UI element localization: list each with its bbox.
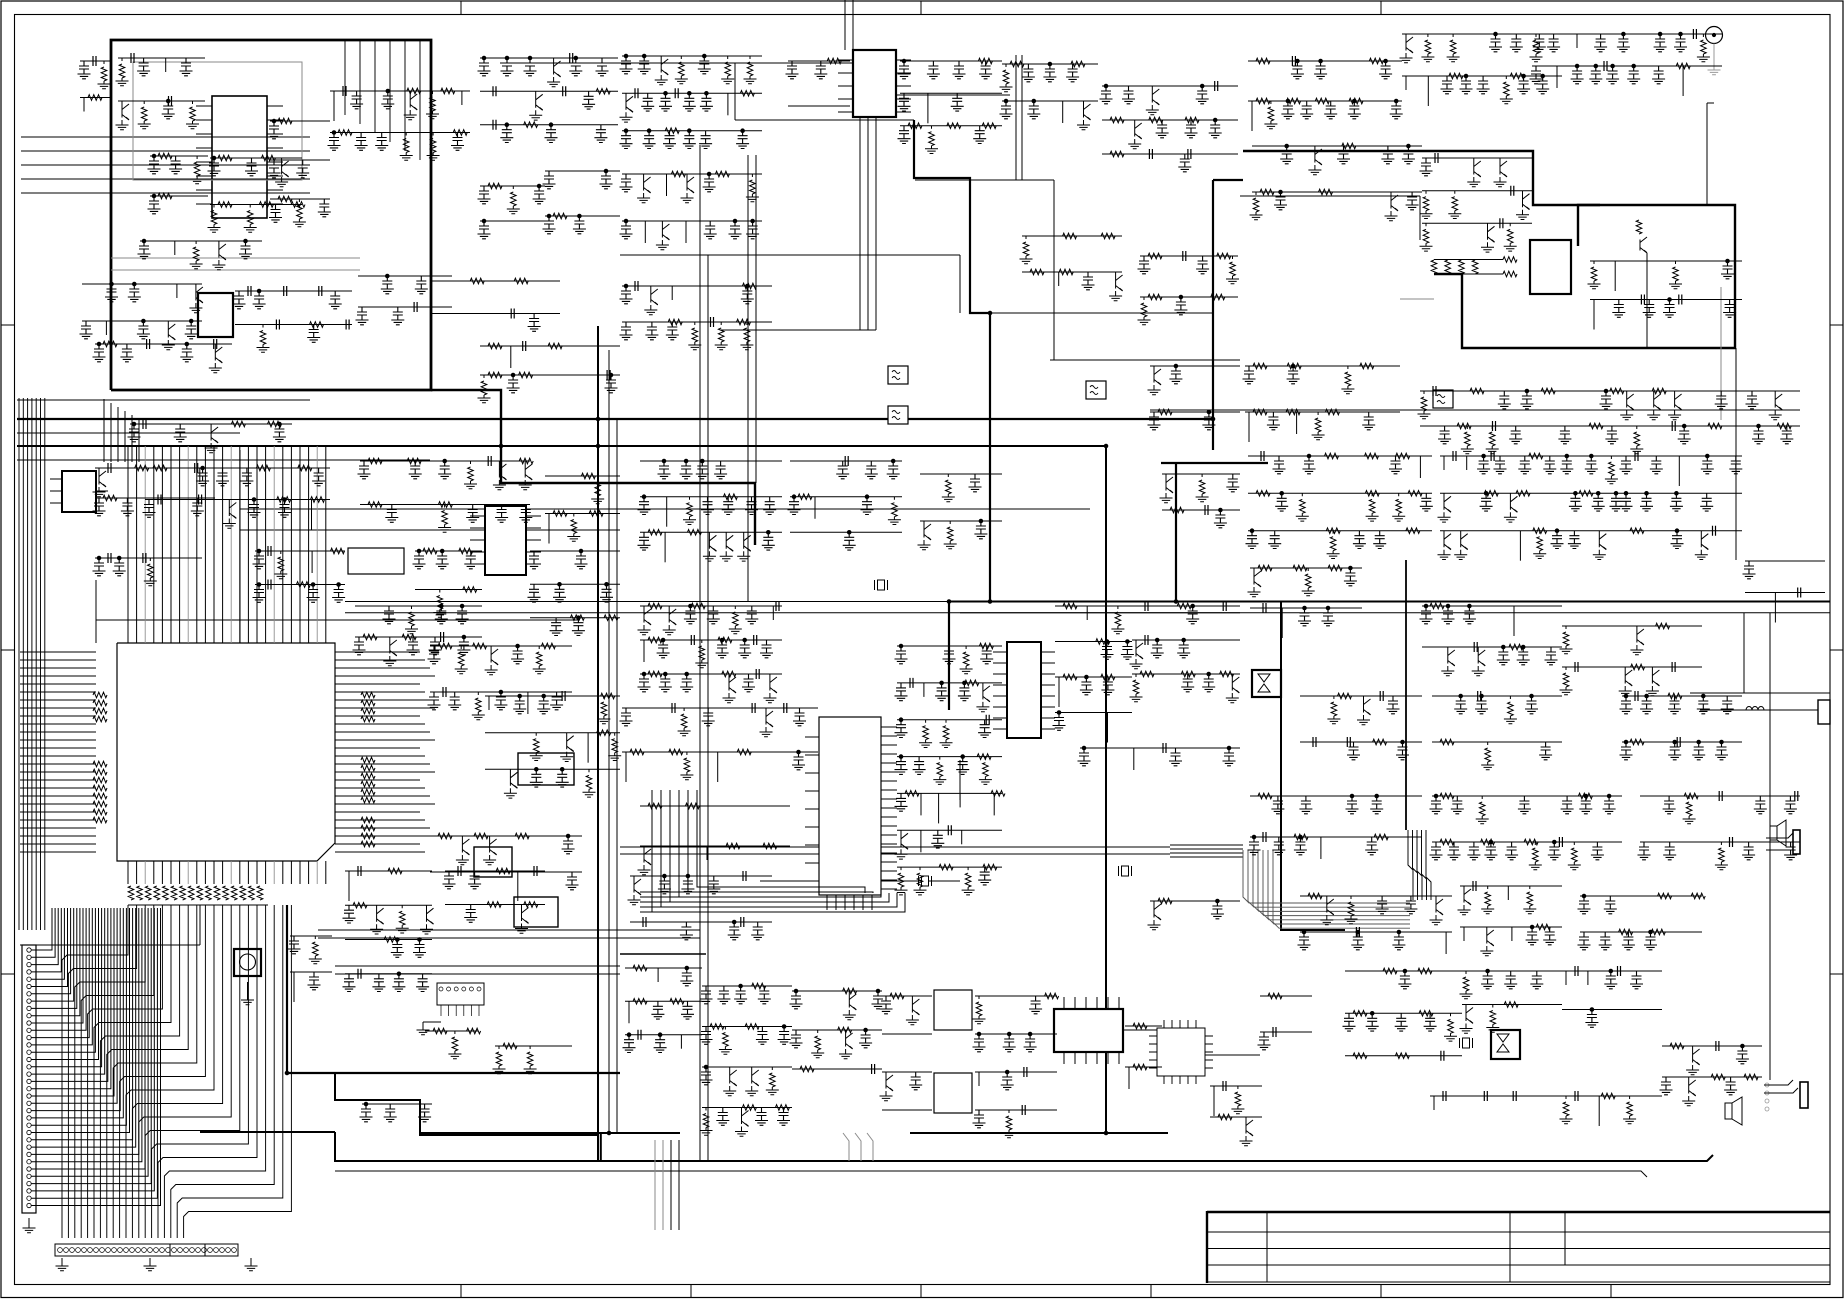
resistor <box>962 867 975 895</box>
wire <box>1706 103 1708 206</box>
wire rail <box>920 520 1002 522</box>
filter FL1 <box>888 366 908 384</box>
capacitor <box>1246 531 1259 549</box>
wire bundle rect bottom <box>104 399 139 462</box>
capacitor <box>895 793 908 811</box>
capacitor <box>413 551 426 569</box>
wire rail <box>235 324 352 326</box>
wire rail <box>95 343 232 345</box>
capacitor <box>716 1108 729 1126</box>
resistor <box>1158 898 1172 904</box>
transistor <box>493 461 507 490</box>
title block columns <box>1267 1212 1565 1282</box>
transistor <box>628 876 642 905</box>
capacitor <box>638 497 651 515</box>
capacitor <box>451 133 464 151</box>
capacitor <box>543 216 556 234</box>
capacitor <box>1622 932 1635 950</box>
transistor <box>404 91 418 120</box>
capacitor <box>528 314 541 332</box>
capacitor <box>683 93 696 111</box>
bus horizontal bottom seg1 <box>200 1131 335 1133</box>
wire stub <box>587 733 589 763</box>
capacitor <box>635 281 638 291</box>
capacitor <box>1267 412 1280 430</box>
capacitor <box>1489 34 1502 52</box>
inductor L1 <box>1746 707 1764 711</box>
resistor <box>1130 674 1143 702</box>
capacitor <box>1663 842 1676 860</box>
crystal X4 <box>1463 1038 1470 1048</box>
capacitor <box>1635 691 1638 701</box>
resistor <box>433 1028 447 1034</box>
capacitor <box>1346 796 1359 814</box>
capacitor <box>973 126 986 144</box>
capacitor <box>1578 932 1591 950</box>
transistor <box>1438 493 1452 522</box>
wire rail <box>358 275 452 277</box>
bus tile8 stub <box>620 953 706 955</box>
wire rail <box>975 1033 1057 1035</box>
resistor <box>448 1031 461 1059</box>
resistor <box>1264 101 1277 129</box>
capacitor <box>428 646 441 664</box>
wire gray pair <box>111 258 360 270</box>
capacitor <box>573 216 586 234</box>
resistor <box>1504 1002 1518 1008</box>
capacitor <box>1347 737 1350 747</box>
capacitor <box>120 344 133 362</box>
capacitor <box>1547 34 1560 52</box>
resistor <box>1345 896 1358 924</box>
bus loop top-left <box>111 40 431 390</box>
resistor <box>1560 1096 1573 1124</box>
resistor <box>944 521 957 549</box>
wire rail <box>1532 33 1722 35</box>
resistor <box>1010 61 1024 67</box>
capacitor <box>913 757 926 775</box>
resistor <box>244 205 257 233</box>
wire rail <box>702 1026 792 1028</box>
wire rail <box>360 460 530 462</box>
wire rail <box>130 423 292 425</box>
IC U8 osc <box>348 548 404 574</box>
capacitor <box>1721 261 1734 279</box>
capacitor <box>675 88 678 98</box>
resistor <box>1396 453 1410 459</box>
capacitor <box>1638 842 1651 860</box>
resistor <box>268 421 282 427</box>
capacitor <box>700 93 713 111</box>
capacitor <box>1145 601 1148 611</box>
wire <box>1170 856 1243 858</box>
capacitor <box>343 974 356 992</box>
capacitor <box>148 196 161 214</box>
resistor <box>775 1105 789 1111</box>
resistor <box>1217 253 1231 259</box>
resistor <box>438 643 452 649</box>
wire stub <box>1296 412 1298 434</box>
wire rail <box>792 990 882 992</box>
resistor <box>1560 626 1573 654</box>
resistor <box>116 58 129 86</box>
capacitor <box>1430 842 1443 860</box>
resistor <box>1421 34 1434 62</box>
capacitor <box>714 461 727 479</box>
capacitor <box>760 640 773 658</box>
capacitor <box>80 321 93 339</box>
wire rail <box>1300 741 1422 743</box>
resistor <box>1457 423 1471 429</box>
capacitor <box>1746 391 1759 409</box>
capacitor <box>528 551 541 569</box>
resistor <box>1250 192 1263 220</box>
resistor <box>1059 269 1073 275</box>
wire <box>959 255 961 313</box>
capacitor <box>533 186 546 204</box>
capacitor <box>413 940 426 958</box>
resistor <box>742 283 756 289</box>
capacitor <box>778 1027 791 1045</box>
resistor <box>423 548 437 554</box>
wire stub <box>727 93 729 115</box>
capacitor <box>1719 791 1722 801</box>
resistor <box>589 511 603 517</box>
resistor <box>1110 117 1124 123</box>
resistor <box>1181 671 1195 677</box>
connector J3 ground <box>417 1022 442 1035</box>
transistor <box>1686 1046 1700 1075</box>
transistor <box>1454 531 1468 560</box>
wire rail <box>897 866 1002 868</box>
capacitor <box>909 1072 922 1090</box>
capacitor <box>1713 526 1716 536</box>
op-amp U16 dual <box>1491 1030 1520 1059</box>
resistor <box>1610 388 1624 394</box>
CPU bottom pins gray <box>145 861 317 884</box>
resistor <box>1133 1064 1147 1070</box>
wire stub <box>643 640 645 662</box>
capacitor <box>108 553 111 563</box>
capacitor <box>969 474 982 492</box>
wire stub <box>1513 606 1515 636</box>
wire rail <box>1150 365 1240 367</box>
zone ticks right <box>1830 325 1843 974</box>
wire rail <box>640 460 782 462</box>
capacitor <box>128 424 141 442</box>
resistor <box>363 634 377 640</box>
resistor <box>648 803 662 809</box>
wire rail <box>330 90 470 92</box>
transistor <box>93 468 107 497</box>
resistor <box>888 497 901 525</box>
capacitor <box>553 584 566 602</box>
capacitor <box>1716 1041 1719 1051</box>
capacitor <box>273 424 286 442</box>
capacitor <box>1380 691 1383 701</box>
capacitor <box>1438 426 1451 444</box>
resistor <box>668 319 682 325</box>
wire rail <box>900 125 1002 127</box>
wire <box>1015 55 1017 180</box>
zone ticks bottom <box>461 1285 1611 1298</box>
wire rail <box>920 473 1002 475</box>
capacitor <box>180 58 193 76</box>
wire <box>17 399 310 401</box>
capacitor <box>162 101 175 119</box>
capacitor <box>1511 186 1514 196</box>
capacitor <box>466 505 479 523</box>
wire rail <box>790 460 902 462</box>
wire <box>1419 196 1421 240</box>
transistor <box>644 286 658 315</box>
resistor <box>353 903 367 909</box>
resistor <box>218 155 232 161</box>
resistor <box>933 757 946 785</box>
capacitor <box>745 497 758 515</box>
transistor <box>1620 391 1634 420</box>
resistor <box>1063 603 1077 609</box>
wire rail <box>360 504 530 506</box>
resistor <box>1481 886 1494 914</box>
wire rail <box>1622 695 1742 697</box>
capacitor <box>600 584 613 602</box>
transistor <box>1472 647 1486 676</box>
CPU bottom pins <box>128 861 326 884</box>
capacitor <box>375 133 388 151</box>
resistor <box>1294 834 1308 840</box>
capacitor <box>861 497 874 515</box>
wire rail <box>345 973 432 975</box>
resistor <box>746 174 759 202</box>
wire rail <box>345 870 432 872</box>
capacitor <box>898 126 911 144</box>
wire <box>1170 852 1243 854</box>
resistor <box>1619 929 1633 935</box>
capacitor <box>511 646 524 664</box>
capacitor <box>1396 742 1409 760</box>
resistor <box>718 637 732 643</box>
resistor <box>665 128 679 134</box>
capacitor <box>1606 66 1619 84</box>
wire rail <box>1402 75 1562 77</box>
capacitor <box>511 309 514 319</box>
wire stub <box>993 793 995 815</box>
wire rail <box>1622 455 1742 457</box>
capacitor <box>1274 192 1287 210</box>
wire <box>616 420 618 1133</box>
capacitor <box>1420 606 1433 624</box>
capacitor <box>381 91 394 109</box>
resistor <box>208 205 221 233</box>
capacitor <box>1723 300 1736 318</box>
capacitor <box>1248 837 1261 855</box>
capacitor <box>1443 1091 1446 1101</box>
resistor <box>1296 493 1309 521</box>
resistor <box>1096 639 1110 645</box>
resistor <box>488 343 502 349</box>
capacitor <box>93 344 106 362</box>
wire stub <box>680 1035 682 1049</box>
resistor <box>259 202 273 208</box>
resistor <box>384 937 398 943</box>
wire <box>1707 102 1714 104</box>
capacitor <box>1121 642 1134 660</box>
resistor <box>487 902 501 908</box>
wire rail <box>897 756 1002 758</box>
transistor <box>547 58 561 87</box>
wire rail <box>1248 60 1402 62</box>
capacitor <box>1715 742 1728 760</box>
capacitor <box>1604 896 1617 914</box>
capacitor <box>78 61 91 79</box>
capacitor <box>651 1001 664 1019</box>
wire stub <box>1576 34 1578 48</box>
wire stub <box>1062 101 1064 123</box>
capacitor <box>734 986 747 1004</box>
capacitor <box>1561 796 1574 814</box>
capacitor <box>1196 256 1209 274</box>
resistor <box>940 720 953 748</box>
capacitor <box>635 88 638 98</box>
resistor <box>144 558 157 586</box>
bus y180 segment <box>1213 179 1243 181</box>
resistor <box>947 123 961 129</box>
wire rail <box>622 55 762 57</box>
capacitor <box>239 241 252 259</box>
wire rail <box>788 60 850 62</box>
wire rail <box>1580 895 1702 897</box>
capacitor <box>1001 1072 1014 1090</box>
wire rail <box>1252 145 1422 147</box>
wire rail <box>495 1045 572 1047</box>
wire rail <box>270 120 330 122</box>
transistor <box>681 174 695 203</box>
resistor <box>453 130 467 136</box>
capacitor <box>416 974 429 992</box>
resistor <box>1504 223 1517 251</box>
capacitor <box>643 131 656 149</box>
wire stub <box>1507 886 1509 900</box>
wire rail <box>1432 695 1562 697</box>
wire stub <box>1107 713 1109 743</box>
resistor <box>1529 842 1542 870</box>
capacitor <box>1480 493 1493 511</box>
resistor <box>685 803 699 809</box>
capacitor <box>1268 531 1281 549</box>
capacitor <box>986 715 989 725</box>
capacitor <box>1080 677 1093 695</box>
resistor <box>1529 453 1543 459</box>
wire stub <box>923 683 925 697</box>
capacitor <box>594 125 607 143</box>
capacitor <box>1178 154 1191 172</box>
capacitor <box>1730 837 1733 847</box>
resistor <box>1366 493 1379 521</box>
resistor <box>541 643 555 649</box>
wire rail <box>630 921 772 923</box>
resistor <box>488 183 502 189</box>
wire rail <box>1345 1055 1462 1057</box>
resistor <box>723 494 737 500</box>
resistor bank pa <box>1431 257 1517 277</box>
capacitor <box>607 370 610 380</box>
wire stub <box>1248 412 1250 442</box>
capacitor <box>1196 86 1209 104</box>
transistor <box>212 241 226 270</box>
capacitor <box>895 646 908 664</box>
transistor <box>656 221 670 250</box>
resistor <box>633 999 647 1005</box>
wire stub <box>1598 1096 1600 1126</box>
IC U10 <box>518 753 574 785</box>
transistor <box>1148 901 1162 930</box>
resistor <box>1148 294 1162 300</box>
resistor <box>1541 388 1555 394</box>
capacitor <box>716 640 729 658</box>
transistor <box>720 532 734 561</box>
resistor <box>1253 409 1267 415</box>
resistor <box>742 1105 756 1111</box>
capacitor <box>1679 295 1682 305</box>
wire stub <box>1565 971 1567 985</box>
wire rail <box>1260 995 1312 997</box>
capacitor <box>756 1027 769 1045</box>
resistor <box>1481 742 1494 770</box>
wire rail <box>445 904 545 906</box>
wire rail <box>1420 425 1800 427</box>
capacitor <box>620 56 633 74</box>
capacitor <box>1082 272 1095 290</box>
capacitor <box>500 125 513 143</box>
wire rail <box>622 751 818 753</box>
resistor <box>763 843 777 849</box>
resistor <box>983 864 997 870</box>
wire stub <box>1251 101 1253 131</box>
resistor <box>648 637 662 643</box>
capacitor <box>1543 456 1556 474</box>
resistor <box>463 587 477 593</box>
capacitor <box>269 205 282 223</box>
capacitor <box>1752 426 1765 444</box>
resistor <box>473 643 487 649</box>
wire <box>20 944 200 946</box>
wire rail <box>1125 1066 1162 1068</box>
wire stub <box>961 830 963 844</box>
capacitor <box>951 93 964 111</box>
IC U6 audio tall <box>819 717 881 895</box>
wire rail <box>975 1071 1057 1073</box>
capacitor <box>1497 647 1510 665</box>
wire stub <box>666 174 668 196</box>
wire rail <box>1562 1095 1662 1097</box>
capacitor <box>493 120 496 130</box>
op-amp triangles <box>1497 1034 1509 1052</box>
transistor <box>1619 667 1633 696</box>
capacitor <box>1433 386 1436 396</box>
capacitor <box>1226 474 1239 492</box>
capacitor <box>1559 837 1562 847</box>
capacitor <box>391 940 404 958</box>
wire <box>1050 359 1240 361</box>
resistor <box>1063 674 1077 680</box>
bus audio feed <box>1281 601 1345 930</box>
capacitor <box>556 769 569 787</box>
title block rows <box>1207 1232 1830 1282</box>
resistor <box>1071 61 1085 67</box>
resistor <box>630 749 644 755</box>
resistor <box>1486 1005 1499 1033</box>
